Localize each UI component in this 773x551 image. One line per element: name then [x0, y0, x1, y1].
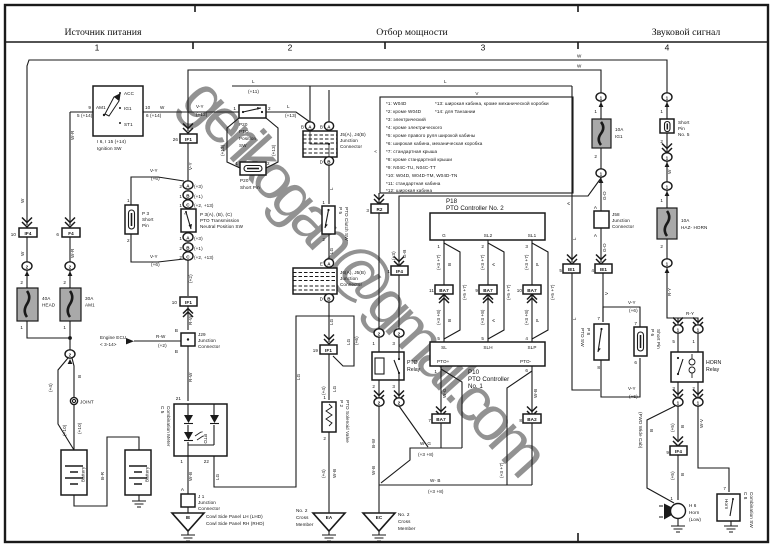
svg-text:6 (+14): 6 (+14)	[146, 113, 162, 118]
svg-text:IF1: IF1	[325, 348, 332, 353]
svg-text:AM1: AM1	[96, 105, 106, 110]
wire	[69, 237, 71, 262]
svg-text:*9: N04C-TU, N04C-TT: *9: N04C-TU, N04C-TT	[386, 165, 436, 170]
svg-text:10: 10	[145, 105, 151, 110]
svg-text:2: 2	[268, 106, 271, 111]
connector circle 2	[22, 262, 32, 270]
svg-text:P 2: P 2	[339, 400, 344, 407]
svg-text:P10: P10	[468, 369, 480, 376]
fuse 40A HEAD	[17, 288, 38, 321]
svg-text:B: B	[320, 125, 323, 130]
combination meter C5 box	[174, 404, 227, 456]
svg-text:G-D: G-D	[602, 191, 607, 200]
svg-text:(+3 +8): (+3 +8)	[418, 452, 434, 457]
svg-text:Отбор мощности: Отбор мощности	[376, 27, 448, 38]
svg-text:5: 5	[559, 268, 562, 273]
svg-text:3: 3	[366, 208, 369, 213]
svg-text:*8: кроме стандартной крыши: *8: кроме стандартной крыши	[386, 156, 452, 162]
svg-text:(+3 +7): (+3 +7)	[436, 254, 441, 270]
bottom border tick	[577, 533, 579, 541]
wire G-B from right	[399, 178, 601, 329]
svg-text:D: D	[320, 297, 324, 302]
svg-text:ST1: ST1	[124, 122, 133, 127]
wire R-W down	[187, 346, 189, 401]
svg-text:W-B: W-B	[533, 389, 538, 398]
svg-text:R-Y: R-Y	[667, 288, 672, 296]
svg-text:W: W	[20, 251, 25, 256]
svg-text:1: 1	[437, 244, 440, 249]
ground triangle IE	[187, 507, 189, 513]
PTO- output	[531, 366, 533, 485]
svg-text:No. 1: No. 1	[468, 383, 483, 390]
svg-text:SLP: SLP	[528, 345, 537, 350]
svg-text:P: P	[535, 263, 540, 266]
svg-text:8: 8	[597, 365, 600, 370]
svg-text:L: L	[287, 104, 290, 109]
svg-text:P 5: P 5	[338, 207, 343, 214]
svg-text:(+13): (+13)	[271, 144, 276, 156]
joint	[70, 397, 77, 404]
meter pin22 loop to LG	[214, 316, 354, 487]
svg-text:PTO: PTO	[407, 360, 418, 366]
wire + pin 2	[69, 270, 71, 288]
svg-text:2: 2	[378, 331, 381, 336]
svg-text:Connector: Connector	[340, 144, 362, 149]
svg-text:W: W	[20, 198, 25, 203]
svg-text:2: 2	[398, 331, 401, 336]
svg-text:2: 2	[481, 244, 484, 249]
svg-text:J58: J58	[612, 212, 620, 217]
svg-text:IF1: IF1	[185, 300, 192, 305]
ignition switch box	[93, 86, 143, 136]
svg-text:HAZ- HORN: HAZ- HORN	[681, 225, 707, 230]
battery 2	[125, 450, 151, 495]
svg-text:(+2, +13): (+2, +13)	[194, 203, 214, 208]
svg-text:(+6): (+6)	[629, 308, 638, 313]
svg-text:A: A	[186, 183, 190, 188]
svg-text:1: 1	[323, 395, 326, 400]
svg-text:(Low): (Low)	[689, 517, 701, 522]
P2 PTO solenoid valve	[322, 402, 336, 432]
svg-text:3: 3	[392, 384, 395, 389]
fuse 10A IG1	[592, 119, 611, 148]
svg-text:(+2): (+2)	[188, 274, 193, 283]
svg-text:(+5 +7): (+5 +7)	[462, 284, 467, 300]
P3 lower circles A B C	[183, 233, 193, 241]
wire R-Y to horn relay	[667, 267, 698, 324]
svg-text:*7: стандартная крыша: *7: стандартная крыша	[386, 149, 438, 154]
svg-text:Neutral Position SW: Neutral Position SW	[200, 224, 244, 229]
svg-text:EA: EA	[326, 515, 333, 520]
wire W-R from ignition	[69, 112, 71, 225]
svg-text:H 6: H 6	[689, 503, 697, 508]
svg-text:6: 6	[56, 232, 59, 237]
wire W bus upper	[27, 60, 667, 112]
svg-text:2: 2	[63, 280, 66, 285]
battery feed wires	[58, 358, 74, 450]
svg-text:Junction: Junction	[340, 276, 358, 281]
svg-text:1: 1	[670, 496, 673, 501]
svg-text:(+5 +7): (+5 +7)	[506, 284, 511, 300]
svg-text:(+3 +8): (+3 +8)	[480, 309, 485, 325]
fuse 30A AM1	[60, 288, 81, 321]
svg-text:(+3): (+3)	[194, 184, 203, 189]
svg-text:SW: SW	[239, 143, 247, 148]
svg-text:W-R: W-R	[70, 248, 75, 258]
svg-text:P18: P18	[446, 198, 458, 205]
svg-text:PTO: PTO	[203, 434, 208, 444]
svg-text:P20: P20	[239, 122, 248, 127]
svg-text:HEAD: HEAD	[42, 303, 56, 308]
svg-text:9: 9	[666, 450, 669, 455]
svg-text:8: 8	[519, 418, 522, 423]
svg-text:PTO Solenoid Valve: PTO Solenoid Valve	[345, 400, 350, 443]
svg-text:1: 1	[600, 95, 603, 100]
svg-text:7: 7	[428, 418, 431, 423]
svg-text:7: 7	[597, 316, 600, 321]
svg-text:26: 26	[173, 137, 179, 142]
svg-text:L: L	[572, 317, 577, 320]
svg-text:2: 2	[127, 238, 130, 243]
svg-text:(+2): (+2)	[158, 343, 167, 348]
svg-text:B: B	[680, 425, 685, 428]
wire down to IF1	[187, 112, 189, 131]
svg-text:3: 3	[525, 244, 528, 249]
FWD wide cab bypass	[647, 406, 675, 503]
svg-text:5: 5	[672, 339, 675, 344]
svg-text:J6(A), J5(B): J6(A), J5(B)	[340, 270, 366, 275]
svg-text:(+3 +8): (+3 +8)	[428, 489, 444, 494]
svg-text:Connector: Connector	[198, 344, 220, 349]
svg-text:LG: LG	[296, 373, 301, 380]
svg-text:7: 7	[634, 321, 637, 326]
svg-text:B: B	[680, 473, 685, 476]
svg-text:19: 19	[313, 348, 319, 353]
svg-text:Junction: Junction	[612, 218, 630, 223]
wire W down	[596, 93, 606, 101]
svg-text:C 8: C 8	[743, 492, 748, 500]
svg-text:W- B: W- B	[430, 478, 441, 483]
svg-text:V-Y: V-Y	[628, 386, 636, 391]
svg-text:Short Pin: Short Pin	[240, 185, 260, 190]
svg-text:1: 1	[600, 171, 603, 176]
svg-text:B: B	[301, 125, 304, 130]
svg-text:R-W: R-W	[188, 372, 193, 382]
svg-text:IF1: IF1	[185, 137, 192, 142]
svg-text:30A: 30A	[85, 296, 94, 301]
svg-text:10A: 10A	[681, 218, 690, 223]
svg-text:E: E	[320, 262, 323, 267]
svg-text:*13: широкая кабина, кроме мех: *13: широкая кабина, кроме механической …	[435, 100, 549, 106]
svg-text:IE1: IE1	[568, 267, 576, 272]
wire LG to P2	[328, 354, 330, 400]
svg-text:(+1): (+1)	[194, 194, 203, 199]
SL1 column wire	[531, 240, 533, 342]
svg-text:1: 1	[697, 327, 700, 332]
svg-text:IE: IE	[186, 515, 191, 520]
svg-text:2: 2	[288, 43, 293, 53]
svg-text:LG: LG	[329, 318, 334, 325]
chevrons into horn relay output connectors	[673, 390, 683, 400]
svg-text:(+3 +7): (+3 +7)	[480, 254, 485, 270]
C8 combination SW	[717, 494, 740, 521]
ground triangle EA	[313, 513, 345, 531]
svg-text:(FWD Wide Cab): (FWD Wide Cab)	[638, 412, 643, 449]
svg-text:IF4: IF4	[675, 449, 682, 454]
svg-text:Engine ECU: Engine ECU	[100, 335, 126, 340]
svg-text:2: 2	[323, 436, 326, 441]
svg-text:(+5): (+5)	[670, 471, 675, 480]
wire LG to IF1(19)	[328, 302, 330, 342]
svg-text:Junction: Junction	[198, 500, 216, 505]
svg-text:*14: для Танзании: *14: для Танзании	[435, 109, 476, 114]
svg-text:EC: EC	[376, 515, 383, 520]
svg-text:(+13): (+13)	[285, 113, 297, 118]
svg-text:2: 2	[179, 246, 182, 251]
svg-text:4: 4	[591, 268, 594, 273]
svg-text:SL1: SL1	[528, 233, 537, 238]
svg-text:A: A	[308, 124, 312, 129]
svg-text:R2: R2	[376, 207, 382, 212]
svg-text:10: 10	[172, 300, 178, 305]
svg-text:P 6: P 6	[650, 329, 655, 336]
svg-text:B: B	[186, 193, 190, 198]
svg-text:V-Y: V-Y	[628, 300, 636, 305]
svg-text:2: 2	[372, 384, 375, 389]
svg-text:Звуковой сигнал: Звуковой сигнал	[652, 27, 721, 38]
svg-text:(+3 +7): (+3 +7)	[524, 254, 529, 270]
svg-text:W-B: W-B	[332, 469, 337, 478]
svg-text:2: 2	[69, 264, 72, 269]
svg-text:B: B	[649, 429, 654, 432]
svg-text:40A: 40A	[42, 296, 51, 301]
svg-text:2: 2	[594, 154, 597, 159]
svg-text:B: B	[327, 296, 331, 301]
svg-text:P 3(A), (B), (C): P 3(A), (B), (C)	[200, 212, 233, 217]
J1 junction connector	[181, 494, 195, 507]
svg-text:2: 2	[20, 280, 23, 285]
svg-text:1: 1	[235, 161, 238, 166]
svg-text:9: 9	[88, 105, 91, 110]
svg-text:J29: J29	[198, 332, 206, 337]
svg-text:2: 2	[267, 161, 270, 166]
wire PTO+ bypass	[441, 369, 462, 448]
svg-text:< 3-14>: < 3-14>	[100, 342, 117, 347]
svg-text:PTO Controller: PTO Controller	[468, 376, 509, 383]
connector circle 2	[65, 350, 75, 358]
svg-text:W: W	[577, 64, 582, 69]
connector circle 2	[65, 262, 75, 270]
wire PTO- bypass	[507, 371, 532, 485]
svg-text:*3: электрический: *3: электрический	[386, 116, 426, 122]
W-B bus to EC ground	[379, 448, 532, 485]
svg-text:Cowl Side Panel RH (RHD): Cowl Side Panel RH (RHD)	[206, 521, 265, 526]
L vertical to IE1 (5)	[571, 86, 573, 262]
svg-text:Cross: Cross	[296, 515, 309, 520]
svg-text:Connector: Connector	[340, 282, 362, 287]
svg-text:3: 3	[392, 341, 395, 346]
svg-text:(+6): (+6)	[151, 262, 160, 267]
wire G-D to J58	[600, 177, 602, 211]
svg-text:(+3 +8): (+3 +8)	[436, 309, 441, 325]
svg-text:*12: широкая кабина: *12: широкая кабина	[386, 188, 432, 193]
svg-text:1: 1	[322, 200, 325, 205]
V-Y loop top	[603, 307, 640, 327]
svg-text:IF4: IF4	[396, 269, 403, 274]
svg-text:22: 22	[204, 459, 210, 464]
svg-text:No. 5: No. 5	[678, 132, 690, 137]
svg-text:11: 11	[429, 288, 434, 293]
G column wire	[443, 240, 445, 342]
svg-text:A: A	[327, 261, 331, 266]
svg-text:1: 1	[594, 109, 597, 114]
svg-text:SL: SL	[441, 345, 447, 350]
svg-text:W-V: W-V	[699, 418, 704, 428]
J58 junction connector	[594, 211, 609, 228]
svg-text:1: 1	[179, 194, 182, 199]
fuse 10A HAZ-HORN	[657, 208, 677, 239]
svg-text:1: 1	[666, 184, 669, 189]
svg-text:Combination Meter: Combination Meter	[166, 406, 171, 447]
svg-text:BA7: BA7	[483, 288, 493, 293]
svg-text:LG: LG	[346, 338, 351, 345]
svg-text:V-Y: V-Y	[150, 254, 158, 259]
svg-text:C: C	[186, 254, 190, 259]
svg-text:C 5: C 5	[160, 406, 165, 414]
SL2 column wire	[487, 240, 489, 342]
wire L out of P20	[266, 112, 310, 122]
battery 1	[61, 450, 87, 495]
svg-text:4: 4	[665, 43, 670, 53]
svg-text:F4: F4	[68, 231, 74, 236]
wire AM1 to left	[70, 111, 93, 113]
L bus top	[232, 85, 572, 87]
wire + pin 2	[26, 270, 28, 288]
svg-text:1: 1	[666, 261, 669, 266]
svg-text:*4: кроме электрического: *4: кроме электрического	[386, 125, 443, 130]
HORN relay	[671, 352, 703, 382]
svg-text:(+4): (+4)	[321, 469, 326, 478]
svg-text:B: B	[77, 375, 82, 378]
PTO+ output	[381, 366, 441, 483]
svg-text:2: 2	[179, 184, 182, 189]
svg-text:9: 9	[475, 288, 478, 293]
svg-text:(+1): (+1)	[194, 246, 203, 251]
svg-text:7: 7	[723, 486, 726, 491]
svg-text:HORN: HORN	[706, 360, 722, 366]
svg-text:R-W: R-W	[156, 334, 166, 339]
wire down from C to IF1(10)	[187, 260, 189, 296]
svg-text:1: 1	[63, 325, 66, 330]
svg-text:R-Y: R-Y	[686, 311, 694, 316]
svg-text:6: 6	[634, 360, 637, 365]
svg-text:2: 2	[378, 400, 381, 405]
svg-text:1: 1	[660, 198, 663, 203]
svg-text:LG: LG	[215, 473, 220, 480]
svg-text:P 3: P 3	[142, 211, 149, 216]
fusible link IF4	[19, 228, 37, 237]
svg-text:W-B: W-B	[188, 472, 193, 481]
svg-text:PTO Clutch SW: PTO Clutch SW	[344, 207, 349, 241]
svg-text:B: B	[447, 319, 452, 322]
svg-text:1: 1	[179, 236, 182, 241]
wire	[26, 237, 28, 262]
battery 2 ground	[138, 495, 140, 501]
svg-text:A: A	[327, 124, 331, 129]
svg-text:SL2: SL2	[484, 233, 493, 238]
svg-text:*1: W04D: *1: W04D	[386, 101, 407, 106]
svg-text:Horn: Horn	[724, 499, 729, 510]
svg-text:(+4): (+4)	[321, 386, 326, 395]
wire IG1 to right, W bus	[143, 111, 239, 113]
svg-text:Cross: Cross	[398, 519, 411, 524]
svg-text:(+3): (+3)	[194, 236, 203, 241]
svg-text:1: 1	[387, 269, 390, 274]
connector entry arrows on vertical feeds	[25, 271, 30, 276]
header title row line	[5, 41, 768, 43]
svg-text:Connector: Connector	[198, 506, 220, 511]
svg-text:PTO: PTO	[239, 129, 249, 134]
svg-text:Combination SW: Combination SW	[749, 492, 754, 528]
fusible link IF1	[180, 134, 197, 143]
svg-text:J5(A), J4(B): J5(A), J4(B)	[340, 132, 366, 137]
svg-text:G-D: G-D	[602, 243, 607, 252]
svg-text:AM1: AM1	[85, 303, 95, 308]
svg-text:Connector: Connector	[612, 224, 634, 229]
svg-text:No. 2: No. 2	[398, 512, 410, 517]
svg-text:1: 1	[127, 198, 130, 203]
svg-text:*6: широкая кабина, механическ: *6: широкая кабина, механическая коробка	[386, 141, 483, 146]
svg-text:Member: Member	[398, 526, 416, 531]
svg-text:V-Y: V-Y	[188, 162, 193, 170]
svg-text:Junction: Junction	[340, 138, 358, 143]
wire V to R2 to relay	[378, 193, 380, 329]
svg-text:(+6): (+6)	[151, 176, 160, 181]
svg-text:(+6): (+6)	[629, 394, 638, 399]
svg-text:Pin: Pin	[142, 223, 149, 228]
svg-text:(+10): (+10)	[77, 422, 82, 434]
svg-text:Relay: Relay	[407, 367, 421, 373]
svg-text:1: 1	[692, 339, 695, 344]
svg-text:IF4: IF4	[25, 231, 32, 236]
svg-text:21: 21	[176, 396, 182, 401]
svg-text:D: D	[320, 160, 324, 165]
svg-text:B-W: B-W	[371, 438, 376, 448]
svg-text:2: 2	[26, 264, 29, 269]
svg-text:(+2, +13): (+2, +13)	[194, 255, 214, 260]
short pin No.5	[660, 119, 674, 133]
svg-text:(+3 +7): (+3 +7)	[499, 462, 504, 478]
svg-text:5: 5	[437, 336, 440, 341]
svg-text:B: B	[175, 328, 178, 333]
svg-text:(+5): (+5)	[670, 423, 675, 432]
svg-text:LG: LG	[329, 247, 334, 254]
svg-text:(+13): (+13)	[220, 144, 225, 156]
svg-text:2: 2	[398, 400, 401, 405]
svg-text:10: 10	[11, 232, 17, 237]
svg-text:L: L	[329, 187, 334, 190]
svg-text:Member: Member	[296, 522, 314, 527]
svg-text:Horn: Horn	[689, 510, 700, 515]
header divider ticks top	[195, 6, 578, 12]
svg-text:SLH: SLH	[483, 345, 492, 350]
svg-text:PTO Controller No. 2: PTO Controller No. 2	[446, 205, 504, 212]
svg-text:2: 2	[660, 244, 663, 249]
svg-text:Battery: Battery	[81, 466, 86, 482]
P3 upper circles A B C	[183, 181, 193, 189]
svg-text:(+3 +8): (+3 +8)	[524, 309, 529, 325]
svg-text:W: W	[160, 105, 165, 110]
